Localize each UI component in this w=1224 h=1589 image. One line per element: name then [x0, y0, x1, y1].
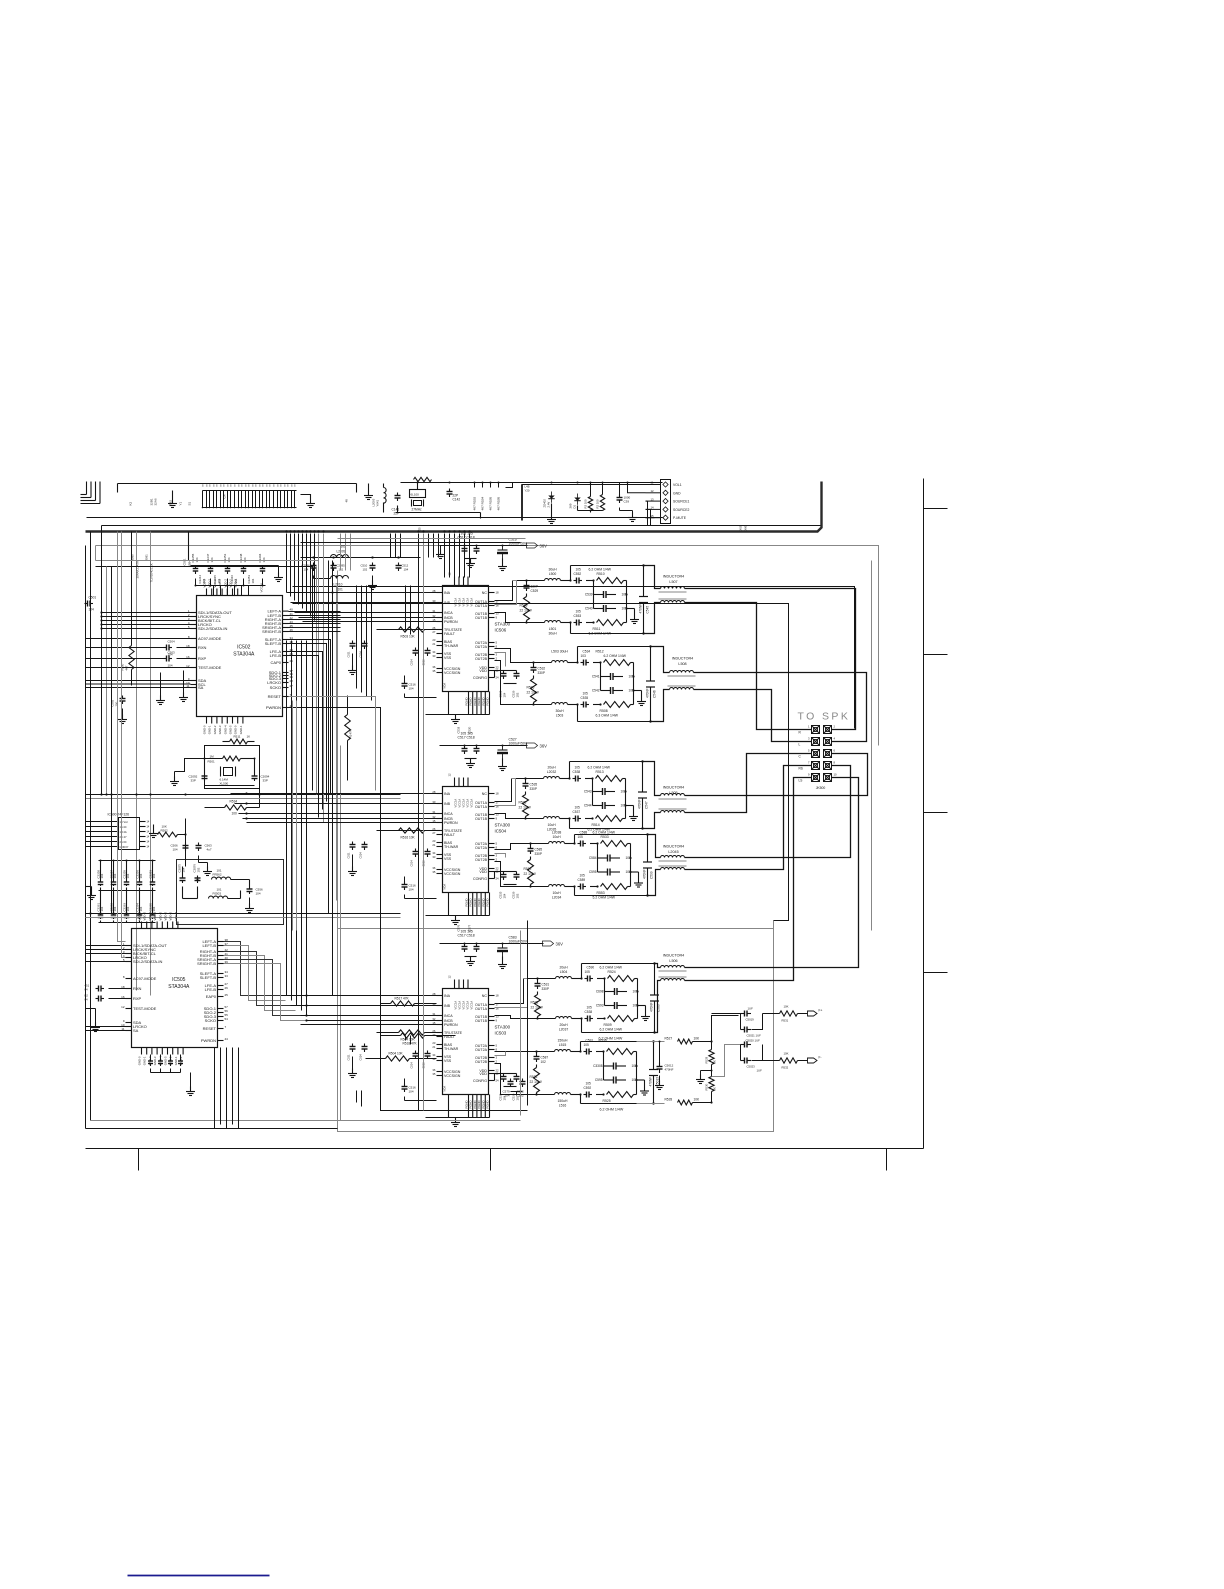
svg-text:OUT2A: OUT2A	[475, 645, 488, 649]
svg-text:NOA: NOA	[443, 683, 447, 689]
svg-text:L503: L503	[556, 714, 564, 718]
svg-text:R517 47K: R517 47K	[395, 997, 410, 1001]
svg-text:104: 104	[503, 893, 507, 898]
svg-text:INDUCTOR4: INDUCTOR4	[663, 575, 684, 579]
svg-text:C142: C142	[453, 498, 461, 502]
svg-text:VCC1A: VCC1A	[458, 799, 462, 808]
svg-text:6.2 OHM 1/4W: 6.2 OHM 1/4W	[600, 966, 623, 970]
svg-text:R519: R519	[524, 867, 532, 871]
svg-text:C589: C589	[578, 878, 586, 882]
svg-text:INB: INB	[444, 1004, 451, 1008]
svg-text:VOL1: VOL1	[673, 483, 682, 487]
svg-text:2C 4Y: 2C 4Y	[120, 835, 127, 839]
bundle verticals mid gray	[313, 534, 337, 996]
svg-text:C543: C543	[584, 790, 592, 794]
label 6.2 OHM ch6 top	[599, 1037, 623, 1041]
svg-text:33: 33	[432, 855, 436, 859]
svg-text:2A 3C: 2A 3C	[120, 840, 127, 844]
svg-text:R524: R524	[608, 970, 616, 974]
svg-text:2.4V: 2.4V	[547, 502, 551, 508]
svg-text:L2034: L2034	[552, 896, 562, 900]
svg-text:S: S	[259, 484, 261, 488]
svg-text:1UF: 1UF	[748, 1007, 754, 1011]
capacitor C503 104	[164, 651, 176, 668]
wires RXN RXP caps	[86, 639, 191, 668]
wires from IC502 left	[102, 613, 191, 629]
svg-text:CONFIG: CONFIG	[473, 676, 487, 680]
svg-text:R522: R522	[531, 1001, 539, 1005]
svg-text:R516 10K: R516 10K	[401, 836, 416, 840]
svg-text:R504 10K: R504 10K	[401, 1038, 416, 1042]
input network IC504	[347, 828, 437, 899]
svg-text:S: S	[220, 484, 222, 488]
filter network L2009 L2010	[301, 545, 421, 592]
IC506 input wires	[287, 593, 437, 630]
svg-text:FR562: FR562	[213, 873, 222, 877]
svg-text:VDD-2: VDD-2	[223, 579, 227, 588]
svg-text:VCC1A: VCC1A	[470, 598, 474, 607]
crystal X100 27MHz circuit	[401, 477, 461, 511]
svg-text:10: 10	[834, 773, 837, 777]
svg-text:L2045: L2045	[668, 850, 678, 854]
svg-text:C540: C540	[585, 607, 593, 611]
svg-text:VDD-2: VDD-2	[174, 912, 178, 921]
svg-text:SOURCE2: SOURCE2	[673, 508, 690, 512]
drop wires to IC503 bundle	[287, 641, 307, 1016]
svg-text:L515: L515	[559, 1043, 567, 1047]
svg-text:R2 100: R2 100	[596, 499, 600, 508]
svg-text:S: S	[230, 484, 232, 488]
svg-text:C511: C511	[347, 1054, 351, 1061]
caps C579 C582	[503, 1079, 526, 1098]
svg-text:VCC1A: VCC1A	[454, 799, 458, 808]
svg-text:35: 35	[432, 669, 436, 673]
svg-text:FAULT: FAULT	[444, 833, 456, 837]
svg-text:C535: C535	[581, 696, 589, 700]
svg-text:VCC1A: VCC1A	[466, 799, 470, 808]
svg-text:GND-5: GND-5	[229, 725, 233, 734]
svg-text:C585: C585	[535, 848, 543, 852]
svg-text:TH-WAR: TH-WAR	[444, 644, 459, 648]
svg-text:S: S	[262, 484, 264, 488]
ground IC505 bottom	[186, 1073, 195, 1096]
svg-text:S: S	[206, 484, 208, 488]
svg-text:RESET: RESET	[203, 1026, 217, 1031]
svg-text:6.2 OHM 1/4W: 6.2 OHM 1/4W	[588, 766, 611, 770]
svg-text:TB2: TB2	[169, 500, 173, 506]
IC505 bottom drop wires	[215, 1048, 239, 1129]
filter FR502 (bead)	[197, 869, 250, 881]
wire ch3 to SPK C+	[685, 754, 868, 796]
staircase IC505 to IC503	[224, 942, 306, 1021]
label 6.2 OHM ch6 bottom	[600, 1108, 624, 1112]
svg-text:L501: L501	[549, 627, 557, 631]
svg-text:330P: 330P	[542, 987, 549, 991]
ground IC502 left 1	[156, 673, 165, 705]
svg-text:S: S	[202, 484, 204, 488]
svg-text:PWRDN: PWRDN	[444, 1023, 458, 1027]
caps labels C519 C520	[457, 726, 472, 733]
svg-text:C587: C587	[541, 1056, 549, 1060]
svg-text:VDD: VDD	[479, 1072, 487, 1076]
svg-text:F-: F-	[819, 1056, 822, 1060]
svg-text:VDD-2: VDD-2	[153, 912, 157, 921]
svg-text:22 1/4W: 22 1/4W	[520, 609, 533, 613]
svg-text:104: 104	[113, 906, 117, 911]
svg-text:104: 104	[195, 557, 199, 562]
svg-text:L2032: L2032	[547, 770, 557, 774]
capacitor C504 104	[164, 640, 176, 657]
svg-text:10uH: 10uH	[552, 891, 561, 895]
svg-text:C591: C591	[586, 1039, 594, 1043]
svg-text:C534: C534	[583, 650, 591, 654]
svg-text:PWRDN: PWRDN	[444, 620, 458, 624]
svg-text:103: 103	[581, 654, 587, 658]
svg-text:150uH: 150uH	[558, 1039, 569, 1043]
wire filter2 to inductor L508	[651, 647, 670, 722]
svg-text:32A6: 32A6	[154, 498, 158, 505]
svg-text:LS: LS	[799, 779, 803, 783]
svg-text:IC500 74F126: IC500 74F126	[108, 813, 130, 817]
svg-text:6.2 OHM 1/4W: 6.2 OHM 1/4W	[589, 568, 612, 572]
svg-text:CONFIG: CONFIG	[473, 1079, 487, 1083]
svg-text:R511: R511	[234, 735, 241, 739]
svg-text:33P: 33P	[263, 779, 268, 783]
svg-text:R503 10K: R503 10K	[401, 635, 416, 639]
svg-text:C511: C511	[347, 651, 351, 658]
svg-text:C544: C544	[584, 804, 592, 808]
svg-text:470NF: 470NF	[665, 1068, 674, 1072]
svg-text:L507: L507	[669, 580, 677, 584]
svg-text:10K: 10K	[784, 1052, 789, 1056]
svg-text:C524: C524	[359, 1054, 363, 1061]
svg-text:VCC1A: VCC1A	[462, 799, 466, 808]
svg-text:IC504: IC504	[495, 829, 507, 834]
svg-text:GND-3: GND-3	[153, 1056, 157, 1065]
svg-text:105: 105	[584, 1043, 590, 1047]
svg-text:R509: R509	[604, 1023, 612, 1027]
svg-text:OUT1A: OUT1A	[475, 1007, 488, 1011]
bus labels C5B1	[183, 532, 192, 566]
svg-text:1C Vcc: 1C Vcc	[120, 820, 129, 824]
bus route box B	[293, 587, 855, 729]
svg-text:SOURCE1: SOURCE1	[673, 500, 690, 504]
capacitor C5012 470NF	[655, 1041, 674, 1090]
svg-text:104: 104	[404, 568, 409, 572]
speaker connector JK500	[799, 725, 837, 791]
svg-text:22 1/4W: 22 1/4W	[531, 1006, 544, 1010]
svg-text:33P: 33P	[191, 779, 196, 783]
svg-text:INB: INB	[444, 601, 451, 605]
bus stub to upper sheet	[522, 485, 530, 521]
svg-text:PWRDN: PWRDN	[266, 705, 281, 710]
svg-text:R533: R533	[601, 835, 609, 839]
svg-text:20uH: 20uH	[559, 1023, 568, 1027]
ground IC505 left	[86, 1009, 101, 1032]
svg-text:21: 21	[432, 843, 436, 847]
svg-text:GND-1: GND-1	[208, 725, 212, 734]
svg-text:RXN: RXN	[133, 986, 142, 991]
svg-text:R525: R525	[603, 1099, 611, 1103]
svg-text:C592: C592	[584, 1086, 592, 1090]
svg-text:14: 14	[651, 506, 655, 510]
svg-text:AC97-MODE: AC97-MODE	[133, 976, 157, 981]
svg-text:S: S	[291, 484, 293, 488]
bus 304A/CDATA gray vertical	[131, 532, 140, 991]
decoupling caps grid row2	[86, 887, 156, 923]
svg-text:C590: C590	[587, 966, 595, 970]
svg-text:27MHz: 27MHz	[412, 508, 423, 512]
svg-text:R530: R530	[705, 1083, 709, 1090]
svg-text:104: 104	[168, 664, 173, 668]
svg-text:18: 18	[496, 994, 500, 998]
connector feed wires	[522, 483, 655, 518]
svg-text:330P: 330P	[530, 787, 537, 791]
footer rule (blue)	[128, 1575, 270, 1577]
svg-text:C547: C547	[645, 801, 649, 809]
svg-text:VCC1A: VCC1A	[458, 598, 462, 607]
svg-text:K2: K2	[129, 501, 133, 505]
svg-text:LFE-B: LFE-B	[205, 987, 217, 992]
wire ch2 to SPK L+	[694, 673, 867, 742]
svg-text:TEST-MODE: TEST-MODE	[133, 1006, 157, 1011]
svg-text:105: 105	[585, 970, 591, 974]
svg-text:S: S	[273, 484, 275, 488]
svg-text:S: S	[294, 484, 296, 488]
long gray drops to IC505	[118, 532, 126, 958]
svg-text:R523: R523	[519, 801, 527, 805]
output filter channel 5 (LS)	[524, 962, 661, 1033]
resistor R500 4K7 vertical	[121, 532, 135, 686]
svg-text:S: S	[234, 484, 236, 488]
svg-text:36V: 36V	[540, 543, 548, 548]
svg-text:INA: INA	[444, 591, 451, 595]
resistor R527 10K	[665, 1037, 713, 1044]
svg-text:INDUCTOR4: INDUCTOR4	[663, 954, 684, 958]
svg-text:S: S	[223, 484, 225, 488]
svg-text:RESET: RESET	[268, 694, 282, 699]
svg-text:C576: C576	[457, 924, 461, 931]
svg-text:VDD-2: VDD-2	[234, 579, 238, 588]
bus TLV/304CCLK gray vertical	[145, 532, 154, 996]
svg-text:26: 26	[225, 986, 229, 990]
svg-text:S: S	[227, 484, 229, 488]
top mid verticals	[341, 534, 439, 571]
svg-text:104: 104	[210, 557, 214, 562]
ground module right	[364, 484, 373, 500]
svg-text:C514: C514	[410, 659, 414, 666]
svg-text:24: 24	[496, 877, 500, 881]
svg-text:6.2 OHM 1/4W: 6.2 OHM 1/4W	[604, 654, 627, 658]
border tick bottom 1	[138, 1149, 140, 1171]
svg-text:C599: C599	[650, 871, 654, 879]
svg-text:INCA: INCA	[444, 1014, 453, 1018]
svg-text:4K7 R1B5: 4K7 R1B5	[489, 496, 493, 510]
svg-text:VDD-2: VDD-2	[208, 579, 212, 588]
capacitor CB2 04	[85, 994, 126, 1002]
svg-text:R514: R514	[592, 823, 600, 827]
svg-text:SDI-2/SDATA-IN: SDI-2/SDATA-IN	[198, 626, 228, 631]
svg-text:1UF: 1UF	[757, 1069, 763, 1073]
svg-text:SA: SA	[198, 685, 204, 690]
svg-text:OUT1B: OUT1B	[475, 817, 488, 821]
svg-text:102: 102	[541, 1060, 547, 1064]
svg-text:PWRDN: PWRDN	[444, 821, 458, 825]
svg-text:S: S	[238, 484, 240, 488]
svg-text:R504 10K: R504 10K	[389, 1052, 404, 1056]
svg-text:10K: 10K	[784, 1005, 789, 1009]
svg-text:VCC1A: VCC1A	[454, 1001, 458, 1010]
svg-text:OUT2A: OUT2A	[475, 1048, 488, 1052]
IC504 input wires	[231, 794, 437, 831]
svg-text:C595: C595	[595, 1078, 603, 1082]
svg-text:C529: C529	[531, 589, 539, 593]
section divider line	[338, 928, 774, 930]
svg-text:22 1/4W: 22 1/4W	[527, 691, 540, 695]
svg-text:104: 104	[139, 906, 143, 911]
svg-text:INDUCTOR4: INDUCTOR4	[663, 845, 684, 849]
bus line C thick	[86, 482, 822, 532]
svg-text:4u7: 4u7	[207, 848, 212, 852]
svg-text:102: 102	[519, 1094, 524, 1098]
svg-text:VDD-2: VDD-2	[148, 912, 152, 921]
svg-text:L2010: L2010	[334, 583, 343, 587]
svg-text:OUT2A: OUT2A	[475, 846, 488, 850]
svg-text:SRIGHT-B: SRIGHT-B	[262, 629, 281, 634]
svg-text:100: 100	[232, 812, 238, 816]
power group IC503	[440, 930, 564, 969]
svg-text:104: 104	[100, 906, 104, 911]
svg-text:VSS: VSS	[444, 857, 452, 861]
svg-text:C5019: C5019	[746, 1018, 755, 1022]
svg-text:OUT2B: OUT2B	[475, 657, 488, 661]
output filter channel 2 (L)	[520, 645, 657, 722]
capacitor C39 1000P	[617, 483, 638, 522]
inductor L2045	[659, 845, 687, 870]
output filter channel 4 (RS)	[517, 831, 654, 900]
IC503 input wires	[281, 996, 437, 1025]
LCD module box outline	[118, 484, 357, 493]
svg-text:VCC-V: VCC-V	[260, 583, 264, 592]
resistor R3 100 vertical	[584, 482, 593, 511]
wires IC504 outputs to filter3	[495, 779, 516, 819]
svg-text:104: 104	[505, 1094, 510, 1098]
svg-text:X02: X02	[739, 525, 743, 530]
wires IC506 outputs to filter2	[495, 649, 520, 705]
svg-text:104: 104	[113, 873, 117, 878]
svg-text:R527: R527	[665, 1037, 673, 1041]
svg-text:104: 104	[409, 888, 414, 892]
svg-text:NOA: NOA	[443, 884, 447, 890]
svg-text:104: 104	[243, 557, 247, 562]
svg-text:6.2 OHM 1/4W: 6.2 OHM 1/4W	[593, 831, 616, 835]
svg-text:R553: R553	[597, 891, 605, 895]
svg-text:INA: INA	[444, 994, 451, 998]
svg-text:1000uF/50V: 1000uF/50V	[509, 940, 528, 944]
wires IC504 outputs to filter4	[495, 844, 517, 887]
svg-text:C517 C518: C517 C518	[458, 934, 475, 938]
resistor R517 47K	[381, 997, 437, 1007]
svg-text:GND-1: GND-1	[174, 1056, 178, 1065]
svg-text:4K7 R1B4: 4K7 R1B4	[481, 496, 485, 510]
svg-text:IC503: IC503	[495, 1031, 507, 1036]
svg-text:33: 33	[432, 1057, 436, 1061]
svg-text:104: 104	[503, 692, 507, 697]
horizontal link rails upper	[96, 561, 319, 567]
capacitor C5021 1UF	[741, 1014, 763, 1038]
svg-text:VCC1A: VCC1A	[466, 1001, 470, 1010]
wire frame lower left	[341, 731, 528, 1121]
svg-text:GND: GND	[673, 491, 681, 495]
svg-text:VCC1A: VCC1A	[462, 1001, 466, 1010]
svg-text:NC: NC	[482, 591, 488, 595]
svg-text:C519: C519	[457, 726, 461, 733]
svg-text:OUT1A: OUT1A	[475, 805, 488, 809]
resistor R504 10K	[366, 1052, 437, 1062]
svg-text:GND-3: GND-3	[218, 725, 222, 734]
capacitor C501 104	[85, 596, 97, 612]
gray verticals right of caps grid	[293, 701, 297, 931]
svg-text:4K7 R1B2: 4K7 R1B2	[473, 496, 477, 510]
verticals x418 x423 long	[419, 534, 424, 1111]
svg-text:GND-4: GND-4	[223, 725, 227, 734]
svg-text:L: L	[799, 743, 801, 747]
svg-text:104: 104	[100, 873, 104, 878]
filter F0503 (bead)	[209, 888, 241, 899]
svg-text:102: 102	[516, 692, 520, 697]
svg-text:22 1/4W: 22 1/4W	[519, 806, 532, 810]
svg-text:10K: 10K	[694, 1098, 701, 1102]
svg-text:10uH: 10uH	[547, 823, 556, 827]
power group IC506	[440, 532, 548, 571]
svg-text:SCKO: SCKO	[270, 685, 281, 690]
svg-text:STA300: STA300	[495, 1025, 511, 1030]
svg-text:S: S	[255, 484, 257, 488]
svg-text:NC: NC	[482, 994, 488, 998]
svg-text:33: 33	[432, 654, 436, 658]
svg-text:C5023: C5023	[747, 1065, 756, 1069]
svg-text:EAP0: EAP0	[206, 994, 217, 999]
svg-text:101: 101	[338, 588, 344, 592]
svg-text:35: 35	[432, 870, 436, 874]
svg-text:20uH: 20uH	[547, 766, 556, 770]
svg-text:304A/CDATA: 304A/CDATA	[136, 561, 140, 579]
svg-text:L508: L508	[678, 662, 686, 666]
svg-text:JK500: JK500	[816, 786, 826, 790]
inductor L505	[659, 786, 687, 813]
svg-text:S: S	[287, 484, 289, 488]
svg-text:12: 12	[448, 773, 452, 777]
svg-text:GND-0: GND-0	[234, 725, 238, 734]
svg-text:P-MUTE: P-MUTE	[673, 516, 687, 520]
svg-text:C3308: C3308	[593, 1064, 603, 1068]
svg-text:150uH: 150uH	[558, 1099, 569, 1103]
resistor R534 100	[205, 789, 260, 816]
svg-text:470NF: 470NF	[638, 799, 642, 809]
svg-text:OUT1B: OUT1B	[475, 616, 488, 620]
capacitor C506 104	[171, 843, 189, 867]
svg-text:INDUCTOR4: INDUCTOR4	[663, 786, 684, 790]
svg-text:F+: F+	[819, 1009, 823, 1013]
wire diode row top bus	[522, 482, 663, 484]
svg-text:R505: R505	[520, 604, 528, 608]
bus route box C	[293, 604, 789, 746]
svg-text:VCC1A: VCC1A	[454, 598, 458, 607]
svg-text:C593: C593	[596, 1004, 604, 1008]
svg-text:6.2 OHM 1/4W: 6.2 OHM 1/4W	[600, 1028, 623, 1032]
connector F+	[808, 1009, 823, 1017]
svg-text:VCC1A: VCC1A	[458, 1001, 462, 1010]
